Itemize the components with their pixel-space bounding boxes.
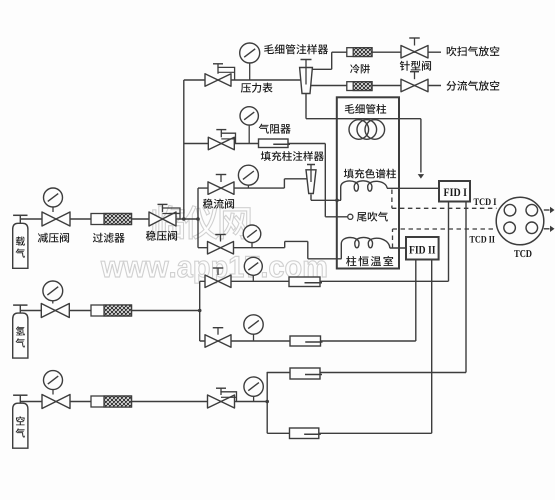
valve: flow stabilizing valve 稳流阀 [208, 182, 234, 195]
valve: carrier stabilizing valve [149, 212, 176, 226]
packed column coil 1 [341, 181, 388, 201]
capillary injector 毛细管注样器 [300, 68, 313, 94]
label 毛细管注样器 [264, 44, 274, 54]
filter: air [91, 396, 132, 407]
node: air riser junction [265, 400, 269, 404]
wire: jog up [283, 179, 285, 188]
gauge: pressure gauge 压力表 [249, 63, 251, 80]
wire: cold trap 2 to split vent [372, 85, 441, 87]
label 柱恒温室 [346, 256, 356, 266]
label 稳压阀 [146, 231, 156, 241]
filter: hydrogen [91, 305, 132, 316]
valve: air pressure reducing valve [42, 395, 70, 409]
label 气阻器 [259, 124, 269, 134]
wire: makeup gas drop [324, 144, 326, 217]
wire: air row to FID II [267, 432, 432, 434]
label 毛细管柱 [345, 104, 355, 114]
label 填充色谱柱 [344, 169, 354, 179]
packed injector 填充柱注样器 [306, 170, 316, 194]
gas cylinder: hydrogen [13, 304, 27, 306]
valve: branch2 stabilizing valve [208, 137, 234, 150]
wire: packed column 2 to FID II [390, 247, 406, 249]
wire: packed column 1 to FID I [387, 187, 439, 189]
valve: branch1 stabilizing valve [205, 74, 231, 87]
FID I detector box [439, 181, 470, 202]
wire: cold trap 1 to purge vent [372, 51, 441, 53]
makeup gas tee 尾吹气 [348, 214, 353, 219]
wire: dashed TCD II channel [393, 228, 497, 230]
restrictor: hydrogen FID II [290, 336, 321, 346]
restrictor: hydrogen FID I [289, 277, 320, 287]
label 吹扫气放空 [447, 46, 457, 56]
gauge: hydrogen FID II branch [253, 334, 255, 341]
wire: capillary column line [306, 118, 421, 120]
node: carrier riser junction [182, 217, 186, 221]
label 稳流阀 [203, 199, 213, 209]
label 过滤器 [93, 233, 103, 243]
capillary column circles [349, 120, 369, 140]
valve: air stabilizing valve [208, 395, 235, 408]
wire: branch to packed column 2 [198, 247, 285, 249]
gauge: packed injector branch [247, 185, 249, 188]
gauge: air line [253, 396, 255, 401]
wire: branch to packed injector [198, 187, 284, 189]
wire: FID II hydrogen pin [415, 260, 417, 342]
wire: dashed drop to TCD I channel [391, 190, 393, 209]
wire: FID II air pin [431, 260, 433, 434]
label 针型阀 [400, 61, 410, 71]
filter: carrier [91, 214, 132, 225]
wire: FID I air pin [465, 202, 467, 373]
wire: injector to cold trap upper [312, 68, 332, 70]
wire: hydrogen main line [20, 310, 199, 312]
TCD outlet arrow 2 [544, 228, 550, 230]
wire: jog down [307, 241, 309, 258]
wire: hydrogen riser [199, 281, 201, 341]
needle valve 2 [401, 79, 428, 92]
wire: horizontal jog [285, 240, 308, 242]
restrictor: air to FID I [290, 368, 320, 379]
wire: hydrogen row to FID I [200, 280, 449, 282]
label TCD I [474, 198, 479, 205]
FID II detector box [406, 237, 439, 260]
wire: makeup gas branch [184, 143, 325, 145]
flow arrow into FID I [418, 174, 424, 179]
label 填充柱注样器 [261, 151, 271, 161]
wire: air main line [20, 401, 267, 403]
wire: into oven to column 2 [308, 258, 342, 260]
cold trap 2 [347, 82, 372, 91]
gauge on hydrogen reducing valve [52, 301, 54, 304]
restrictor: air to FID II [290, 428, 319, 439]
valve: hydrogen to FID I [205, 275, 231, 288]
gas cylinder: carrier [13, 214, 27, 216]
wire: to packed column 1 [311, 199, 341, 201]
gauge: packed column 2 branch [251, 243, 253, 248]
gauge on air reducing valve [52, 390, 54, 395]
label 分流气放空 [446, 81, 456, 91]
node: packed column 1 inlet [335, 199, 339, 203]
wire: into packed injector [284, 178, 309, 180]
column oven box 柱恒温室 [337, 97, 399, 268]
gauge: hydrogen FID I branch [252, 275, 254, 281]
watermark www.app17.com [101, 256, 326, 283]
wire: jog up [331, 52, 333, 69]
wire: dashed TCD I channel [392, 207, 497, 209]
wire: air row to FID I [267, 372, 466, 374]
label 减压阀 [38, 233, 48, 243]
wire: dashed rise to TCD II channel [392, 229, 394, 248]
wire: down to FID I [420, 119, 422, 173]
label 尾吹气 [357, 212, 367, 221]
gas cylinder: air [13, 394, 27, 396]
label TCD II [470, 236, 475, 243]
valve: packed column 2 branch [208, 241, 234, 254]
wire: carrier riser [183, 80, 185, 219]
valve: carrier pressure reducing valve [42, 212, 70, 226]
wire: air splitter riser [266, 372, 268, 433]
node: carrier second riser junction [196, 217, 200, 221]
label TCD [514, 250, 519, 257]
gauge on carrier reducing valve [52, 207, 54, 212]
restrictor 气阻器 [259, 139, 289, 148]
gauge: restrictor branch [248, 125, 250, 143]
label 压力表 [241, 83, 251, 93]
wire: capillary injector down [305, 94, 307, 119]
cold trap 1 [347, 48, 372, 57]
TCD detector [496, 197, 544, 245]
wire: branch to capillary injector [184, 79, 303, 81]
TCD outlet arrow 1 [544, 209, 550, 211]
valve: hydrogen to FID II [205, 335, 231, 348]
label 冷阱 [350, 64, 360, 74]
packed column coil 2 [341, 237, 390, 258]
wire: carrier second riser [197, 188, 199, 248]
wire: to cold trap 1 [332, 51, 347, 53]
valve: hydrogen pressure reducing valve [41, 304, 69, 318]
wire: FID I hydrogen pin [448, 202, 450, 282]
wire: packed injector down [310, 194, 312, 200]
wire: jog up [284, 241, 286, 247]
node: hydrogen riser junction [198, 309, 202, 313]
wire: hydrogen row to FID II [200, 340, 416, 342]
wire: carrier gas main line [20, 218, 198, 220]
wire: makeup gas to tee [325, 216, 347, 218]
wire: injector to cold trap 2 [311, 85, 347, 87]
needle valve 1 针型阀 [401, 45, 428, 58]
watermark 临仪网 [153, 205, 250, 239]
